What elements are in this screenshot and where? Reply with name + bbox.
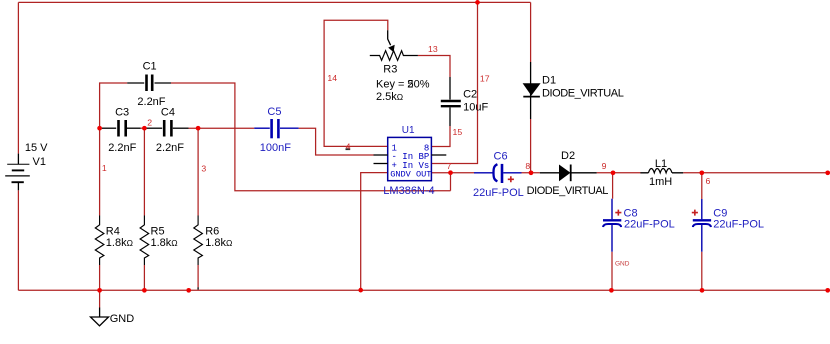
diode D2 (540, 172, 559, 174)
wire GND pin to bottom bus (361, 173, 388, 291)
junction bottom bus R4/GND (97, 288, 102, 293)
capacitor C4 (147, 127, 163, 129)
wire node2 segment (141, 127, 147, 129)
svg-text:D2: D2 (561, 150, 575, 162)
junction top bus / Vs column (475, 0, 480, 5)
svg-text:2.2nF: 2.2nF (108, 142, 136, 154)
svg-text:C5: C5 (267, 106, 281, 118)
svg-text:V1: V1 (33, 156, 46, 168)
wire L1 right to end (683, 172, 828, 174)
svg-text:1.8kΩ: 1.8kΩ (106, 237, 133, 249)
inductor L1 (640, 172, 683, 174)
wire node3 row to C5 (189, 127, 255, 129)
wire C2 bottom to pin 8 (431, 126, 450, 147)
junction bottom bus R6 (186, 288, 191, 293)
svg-text:GND: GND (615, 260, 630, 267)
wire node 9 down to C8 (612, 173, 614, 199)
wire R5 bottom (143, 265, 145, 290)
pin 1 stub remnant (346, 148, 351, 150)
U1 pin 3 stub (+In) (374, 163, 388, 165)
U1 pin 7 stub (BP) (431, 154, 446, 156)
wire top bus (18, 1, 530, 3)
svg-text:100nF: 100nF (260, 142, 291, 154)
junction bottom bus C8 (609, 288, 614, 293)
svg-text:1.8kΩ: 1.8kΩ (205, 237, 232, 249)
svg-text:2.2nF: 2.2nF (156, 142, 184, 154)
wire C1 right to feedback run (171, 83, 451, 191)
svg-text:22uF-POL: 22uF-POL (473, 187, 524, 199)
svg-text:15 V: 15 V (25, 142, 48, 154)
capacitor C5 (254, 127, 270, 129)
svg-text:1.8kΩ: 1.8kΩ (151, 237, 178, 249)
capacitor C6 (474, 172, 493, 174)
junction node 8 (529, 170, 534, 175)
wire node3 to R6 (197, 128, 199, 215)
svg-text:3: 3 (201, 163, 206, 173)
junction node 3 (196, 126, 201, 131)
svg-text:GNDV OUT: GNDV OUT (390, 169, 431, 179)
C8 polarity plus (615, 210, 621, 216)
diode D1 (530, 62, 532, 119)
junction bottom bus U1 GND (358, 288, 363, 293)
svg-text:2: 2 (407, 78, 413, 90)
wire D1 column bottom (530, 119, 532, 173)
svg-text:1: 1 (102, 163, 107, 173)
battery V1 (17, 154, 19, 165)
svg-text:15: 15 (453, 127, 463, 137)
resistor R5 (140, 216, 149, 266)
svg-text:C6: C6 (494, 151, 508, 163)
svg-text:R4: R4 (106, 226, 120, 238)
wire OUT pin to C6 (431, 172, 474, 174)
svg-text:LM386N-4: LM386N-4 (383, 185, 434, 197)
svg-text:6: 6 (706, 176, 711, 186)
net number labels (102, 44, 711, 186)
svg-text:2.5kΩ: 2.5kΩ (376, 91, 403, 103)
capacitor C3 (102, 127, 116, 129)
junction bottom bus end (825, 288, 830, 293)
svg-text:22uF-POL: 22uF-POL (624, 219, 675, 231)
svg-text:R6: R6 (205, 226, 219, 238)
svg-text:D1: D1 (542, 74, 556, 86)
wire ground stub (99, 290, 101, 307)
junction bottom bus R5 (142, 288, 147, 293)
U1 pin 2 stub (-In) (374, 154, 388, 156)
svg-text:9: 9 (602, 161, 607, 171)
C9 polarity plus (692, 210, 698, 216)
resistor R4 (95, 216, 104, 266)
junction node 1 (97, 126, 102, 131)
svg-text:U1: U1 (402, 125, 415, 136)
wire net 14 loop to pin 1 (324, 20, 388, 146)
junction node 7 (OUT) (448, 170, 453, 175)
wire OUT junction down (450, 173, 452, 191)
blue labels (260, 106, 764, 230)
capacitor C8 (611, 199, 613, 220)
op-amp U1 (374, 137, 447, 180)
svg-text:2: 2 (147, 118, 152, 128)
ground symbol (99, 308, 101, 318)
wire node 8 to D2 (522, 172, 540, 174)
potentiometer R3 (370, 51, 418, 61)
wire bottom bus (18, 289, 827, 291)
wire C8 bottom (611, 252, 613, 291)
wire D2 to L1 (597, 172, 641, 174)
junction node 6 wire end (825, 170, 830, 175)
svg-text:C1: C1 (143, 61, 157, 73)
svg-text:13: 13 (428, 44, 438, 54)
svg-text:R5: R5 (151, 226, 165, 238)
svg-text:L1: L1 (655, 158, 667, 170)
wire left border to battery (17, 2, 19, 153)
svg-text:Key = 50%: Key = 50% (376, 78, 430, 90)
svg-text:14: 14 (327, 73, 337, 83)
svg-text:22uF-POL: 22uF-POL (713, 219, 764, 231)
svg-text:DIODE_VIRTUAL: DIODE_VIRTUAL (527, 185, 609, 197)
capacitor C2 (449, 77, 451, 100)
svg-text:4: 4 (346, 141, 351, 151)
svg-text:C2: C2 (463, 89, 477, 101)
wire C1 loop left / node 1 column (100, 83, 128, 216)
junction node 9 (611, 170, 616, 175)
wire C5 jog to -In (299, 128, 374, 155)
svg-text:C3: C3 (115, 106, 129, 118)
capacitor C9 (701, 199, 703, 219)
wire Vs column from top bus (431, 2, 477, 163)
wire node2 to R5 (143, 128, 145, 215)
wire R3 right to C2 top (418, 56, 450, 78)
svg-text:10uF: 10uF (463, 101, 488, 113)
junction node 2 (142, 126, 147, 131)
wire C9 bottom (701, 252, 703, 291)
svg-text:DIODE_VIRTUAL: DIODE_VIRTUAL (542, 87, 624, 99)
wire battery bottom to bus (17, 190, 19, 290)
wire node1 segment (100, 127, 102, 129)
svg-text:1mH: 1mH (649, 176, 672, 188)
svg-text:GND: GND (110, 313, 135, 325)
junction bottom bus C9 (700, 288, 705, 293)
wire R6 bottom (197, 265, 199, 287)
wire R4 bottom (99, 265, 101, 290)
junction node 6 (699, 170, 704, 175)
C6 polarity plus (508, 176, 514, 182)
wire D1 column top (530, 2, 532, 62)
wire node 6 down to C9 (701, 173, 703, 199)
svg-text:7: 7 (447, 161, 452, 171)
svg-text:8: 8 (525, 161, 530, 171)
black labels (25, 61, 672, 325)
capacitor C1 (127, 82, 144, 84)
resistor R6 (194, 216, 203, 266)
svg-text:C4: C4 (161, 106, 175, 118)
svg-text:R3: R3 (383, 64, 397, 76)
svg-text:17: 17 (480, 73, 490, 83)
